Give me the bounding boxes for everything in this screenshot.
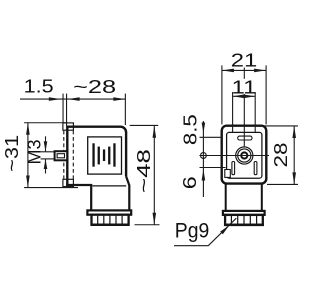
svg-text:8.5: 8.5 (180, 114, 201, 145)
svg-text:11: 11 (232, 76, 257, 97)
Pg9 leader line (174, 218, 236, 246)
front view: inner face (227, 132, 262, 178)
svg-text:Pg9: Pg9 (175, 219, 210, 243)
dimension ~31 (24, 123, 78, 188)
side view: hidden edge dashed lines (64, 131, 74, 179)
side view: M3 screw head (55, 151, 68, 160)
side view: gland ribbed nut (92, 215, 129, 225)
svg-text:~28: ~28 (73, 76, 116, 97)
dimension M3 (45, 136, 47, 173)
front view: outer body (222, 126, 267, 184)
side view: M3 screw extension lines (41, 152, 55, 159)
dimension 1.5 arrow (49, 97, 61, 101)
front view: horizontal centerline / screw slot (199, 155, 269, 157)
side view: gland collar (87, 210, 131, 214)
dimension 21 (222, 65, 266, 124)
front view: vertical centerline (243, 68, 245, 79)
svg-text:1.5: 1.5 (24, 76, 54, 97)
side view: label bars icon (92, 143, 115, 166)
svg-text:21: 21 (231, 50, 258, 71)
dimension 28 (264, 126, 299, 185)
side view: mounting flange top tab (63, 123, 74, 130)
side view: gland nut bottom edge (91, 224, 130, 227)
dimension 11 (233, 92, 256, 132)
front view: top slot (238, 136, 252, 140)
dimension 8.5 and 6 (200, 121, 226, 197)
side view: M3 screw slot (57, 154, 64, 158)
side view: connector body block (66, 127, 129, 211)
front view: gland nut bottom edge (224, 224, 264, 227)
svg-text:~31: ~31 (1, 135, 22, 172)
front view: gland ribbed nut (225, 215, 263, 225)
side view: mounting flange bottom tab (63, 179, 74, 186)
front view: right contact pin (254, 162, 257, 175)
front view: left contact pin (232, 162, 235, 175)
front view: center screw circles (236, 147, 253, 164)
front view: keying notch (225, 170, 231, 178)
side view: gland ribs (98, 216, 122, 224)
front view: gland neck (226, 183, 262, 211)
svg-text:28: 28 (270, 143, 291, 168)
side view: coil label square (88, 137, 122, 174)
front view: gland collar (223, 211, 265, 215)
front view: gland ribs (231, 216, 256, 224)
svg-text:M3: M3 (24, 140, 45, 165)
dimension ~48 (130, 125, 160, 224)
svg-text:6: 6 (179, 176, 200, 189)
datum circle marker (201, 153, 207, 159)
dimension ~28 arrows (68, 97, 80, 101)
dimension 1.5 line (20, 94, 125, 126)
svg-text:~48: ~48 (133, 149, 154, 193)
